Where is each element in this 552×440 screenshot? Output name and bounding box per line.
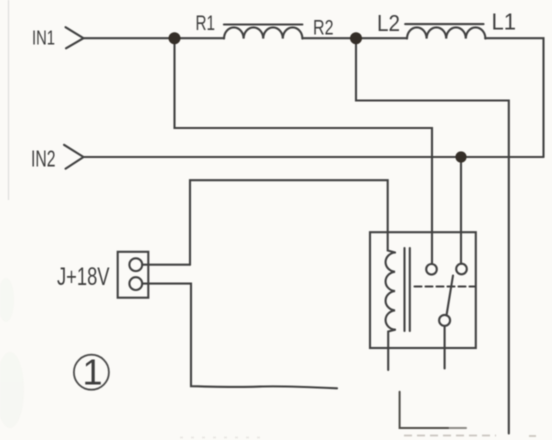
svg-text:L2: L2 bbox=[377, 10, 400, 36]
svg-text:IN1: IN1 bbox=[32, 28, 55, 50]
svg-text:J+18V: J+18V bbox=[57, 263, 110, 291]
svg-text:IN2: IN2 bbox=[31, 146, 56, 172]
svg-text:1: 1 bbox=[82, 352, 102, 393]
svg-text:R2: R2 bbox=[313, 17, 334, 40]
svg-text:R1: R1 bbox=[196, 12, 216, 35]
svg-text:L1: L1 bbox=[492, 8, 517, 34]
